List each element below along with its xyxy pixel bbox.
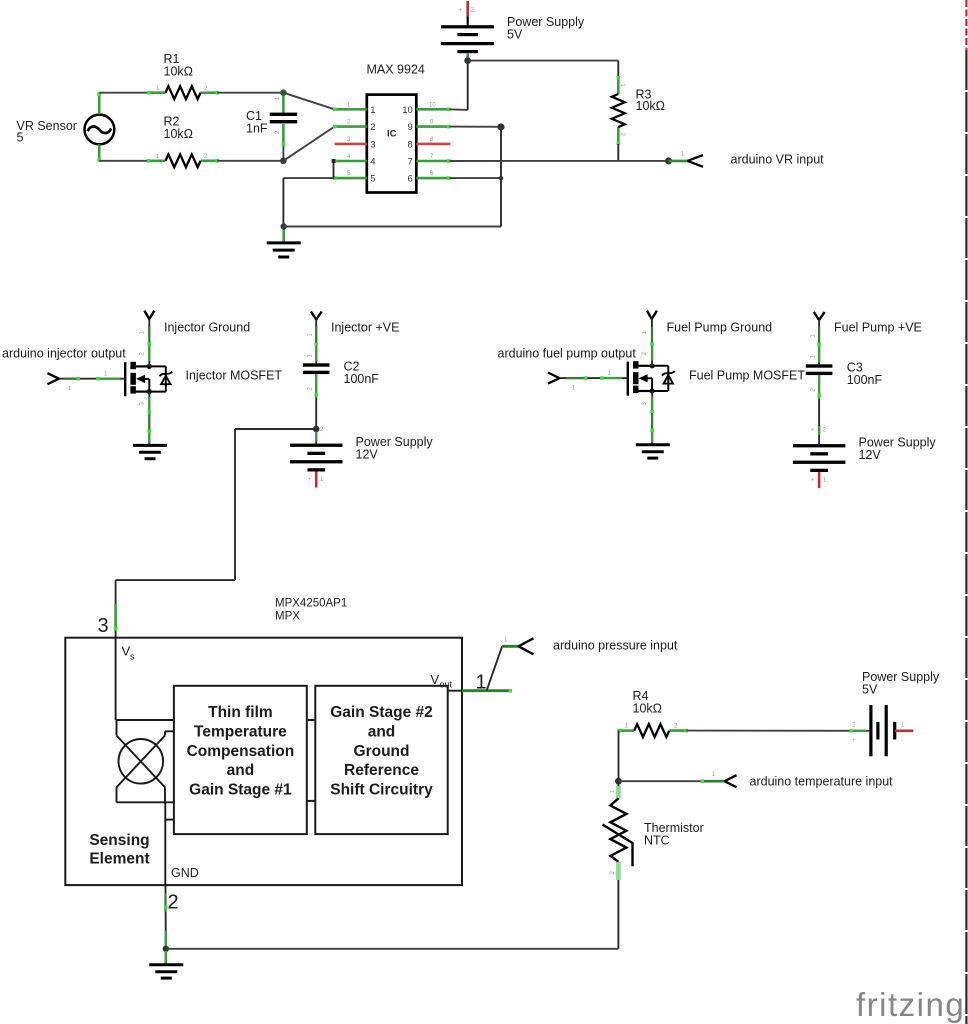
- wire pin1 to pressure antenna (diagonal): [487, 646, 503, 690]
- R4 value label: [633, 689, 663, 716]
- IC pin 3 (no connect, red): [335, 137, 376, 151]
- wire injector output to gate: [59, 372, 124, 393]
- wire R4 down to temperature node: [618, 731, 620, 782]
- svg-text:5V: 5V: [507, 28, 523, 42]
- sensing element bridge: [117, 720, 174, 820]
- wire pin 7 to arduino VR node: [450, 160, 669, 162]
- transistor Q2 fuel pump MOSFET: [628, 361, 675, 396]
- arduino temperature input antenna: [725, 775, 737, 787]
- wire ground node to right vertical: [284, 226, 501, 228]
- IC pin 6: [408, 171, 451, 185]
- wire right vertical (pin9 node to ground wire): [500, 127, 502, 227]
- svg-text:3: 3: [370, 139, 375, 150]
- capacitor C1: [270, 93, 298, 161]
- svg-text:arduino VR input: arduino VR input: [731, 153, 825, 167]
- connector box1-box2 lower: [307, 800, 316, 802]
- 5V rail junction dot: [464, 57, 471, 64]
- svg-text:Fuel Pump +VE: Fuel Pump +VE: [834, 321, 922, 335]
- fuel pump ground antenna: [647, 311, 657, 320]
- svg-text:Sensing: Sensing: [89, 832, 149, 849]
- wire fuel drain up to antenna: [642, 319, 654, 366]
- svg-text:and: and: [227, 762, 255, 779]
- arduino injector output antenna: [48, 373, 60, 384]
- IC pin 1: [333, 102, 376, 116]
- svg-text:and: and: [368, 723, 396, 740]
- power supply 12V battery (fuel pump): [793, 444, 846, 488]
- temperature node junction dot: [615, 778, 622, 785]
- svg-text:V: V: [431, 672, 440, 687]
- svg-text:+: +: [811, 478, 815, 484]
- svg-text:Gain Stage #2: Gain Stage #2: [330, 704, 433, 721]
- arduino VR input antenna: [688, 155, 704, 167]
- node A junction dot: [280, 89, 287, 96]
- svg-text:1nF: 1nF: [246, 122, 268, 136]
- C1 value label: [246, 109, 268, 136]
- wire pin5 to left vertical: [283, 177, 334, 179]
- sensing element label: [89, 832, 149, 867]
- svg-text:10kΩ: 10kΩ: [164, 65, 194, 79]
- svg-text:MPX4250AP1: MPX4250AP1: [275, 598, 347, 610]
- GND internal wire: [164, 802, 166, 885]
- MPX sensor U2 body: [65, 638, 462, 885]
- svg-text:7: 7: [408, 157, 413, 168]
- ground node junction dot: [281, 223, 287, 229]
- wire VR top to R1: [99, 92, 148, 94]
- wire node A to IC pin 1 (diagonal): [283, 93, 334, 110]
- svg-text:Ground: Ground: [354, 743, 410, 760]
- svg-text:Thin film: Thin film: [208, 704, 273, 721]
- svg-text:Injector +VE: Injector +VE: [331, 321, 399, 335]
- injector supply junction dot: [313, 426, 320, 433]
- R3 value label: [636, 88, 666, 114]
- R2 value label: [164, 115, 194, 142]
- wire fuel source down to ground: [642, 391, 654, 444]
- MPX pin 1 lead: [462, 689, 512, 693]
- svg-text:10kΩ: 10kΩ: [164, 127, 194, 141]
- node B junction dot: [280, 158, 287, 165]
- IC pin 10: [402, 102, 450, 116]
- arduino VR node junction dot: [665, 157, 672, 164]
- svg-text:+: +: [811, 428, 815, 434]
- wire left vertical down to ground node: [282, 178, 284, 226]
- ground bus wire to thermistor: [166, 948, 619, 950]
- arduino VR input pin wire: [669, 152, 688, 161]
- svg-text:100nF: 100nF: [847, 373, 883, 387]
- power supply 12V battery (injector): [290, 427, 343, 488]
- arduino pressure input antenna: [519, 638, 534, 654]
- svg-text:NTC: NTC: [644, 834, 670, 848]
- svg-text:Shift Circuitry: Shift Circuitry: [330, 782, 433, 799]
- inner box 1 (Thin film): [174, 686, 307, 834]
- connector box1-box2 upper: [307, 719, 316, 721]
- svg-text:GND: GND: [171, 866, 199, 880]
- svg-text:9: 9: [408, 122, 413, 133]
- arduino fuel pump output antenna: [548, 373, 560, 384]
- ground symbol (IC area): [267, 230, 301, 258]
- R1 value label: [164, 52, 194, 79]
- VR sensor label: [17, 119, 77, 145]
- wire pin4 elbow to pin5 line: [332, 159, 336, 178]
- IC pin 4: [333, 154, 376, 168]
- ground symbol (fuel pump MOSFET): [636, 445, 670, 458]
- injector +VE antenna: [311, 312, 322, 320]
- svg-text:2: 2: [168, 892, 179, 914]
- power supply 5V label: [507, 15, 585, 42]
- svg-text:12V: 12V: [859, 448, 882, 462]
- svg-text:Injector MOSFET: Injector MOSFET: [186, 369, 283, 383]
- wire injector drain up to antenna: [140, 319, 152, 366]
- svg-text:+: +: [459, 8, 463, 14]
- resistor R4: [618, 724, 688, 737]
- inner box 2 (Gain Stage #2): [315, 686, 447, 834]
- wire pin 10 to 5V rail: [450, 61, 468, 110]
- wire node to temperature antenna: [618, 772, 724, 783]
- IC pin 7: [408, 154, 451, 168]
- svg-text:4: 4: [370, 157, 375, 168]
- IC pin 8 (no connect, red): [408, 137, 451, 151]
- transistor Q1 injector MOSFET: [125, 362, 172, 397]
- svg-text:+: +: [308, 477, 312, 483]
- MPX ground junction dot: [163, 946, 169, 952]
- svg-text:10: 10: [402, 105, 413, 116]
- svg-text:Element: Element: [89, 850, 149, 867]
- IC pin 2: [333, 120, 376, 134]
- svg-text:arduino pressure input: arduino pressure input: [553, 639, 678, 653]
- svg-text:arduino injector output: arduino injector output: [2, 347, 126, 361]
- svg-text:10kΩ: 10kΩ: [636, 99, 666, 113]
- svg-text:s: s: [130, 652, 135, 662]
- MPX4250AP1 part label: [275, 598, 347, 623]
- wire VR bottom to R2: [99, 160, 148, 162]
- svg-text:12V: 12V: [356, 448, 379, 462]
- right edge partial element (red): [965, 0, 967, 50]
- thermistor NTC: [603, 781, 633, 949]
- MPX pin 2 wire down: [164, 885, 168, 949]
- svg-text:arduino fuel pump output: arduino fuel pump output: [498, 347, 637, 361]
- thermistor label: [644, 821, 704, 848]
- Vs pin label: [122, 644, 136, 662]
- wire injector source down to ground: [140, 392, 152, 445]
- svg-text:IC: IC: [387, 129, 397, 140]
- svg-text:MAX 9924: MAX 9924: [367, 63, 425, 77]
- fuel pump +VE antenna: [814, 312, 825, 320]
- wire junction to MPX (left then down): [114, 429, 316, 638]
- resistor R1: [147, 86, 219, 99]
- svg-text:Compensation: Compensation: [187, 743, 295, 760]
- power supply 12V label (fuel pump): [859, 436, 937, 463]
- svg-text:arduino temperature input: arduino temperature input: [750, 775, 894, 789]
- pin 9 node junction dot: [497, 123, 504, 130]
- power supply 5V label (right): [862, 670, 940, 697]
- wire R4 to 5V battery: [686, 729, 869, 733]
- svg-text:+: +: [852, 738, 856, 744]
- wire pin 9 to node: [450, 126, 502, 128]
- VR sensor AC source: [85, 115, 115, 145]
- svg-text:5V: 5V: [862, 683, 878, 697]
- wire 5V rail to R3: [468, 61, 619, 78]
- IC U1 body: [367, 95, 417, 193]
- pressure antenna lead: [502, 638, 518, 647]
- power supply 5V battery (top): [441, 1, 494, 59]
- svg-text:Reference: Reference: [344, 762, 419, 779]
- wire fuel pump output to gate: [560, 371, 627, 392]
- capacitor C2: [303, 320, 330, 430]
- svg-text:5: 5: [17, 131, 24, 145]
- wire R1 to node A: [217, 92, 283, 94]
- svg-text:Temperature: Temperature: [194, 723, 287, 740]
- ground symbol (MPX): [149, 951, 183, 978]
- svg-text:100nF: 100nF: [344, 372, 380, 386]
- svg-text:10kΩ: 10kΩ: [633, 702, 663, 716]
- svg-text:10: 10: [429, 102, 436, 108]
- power supply 5V battery (right, rotated): [852, 705, 913, 756]
- svg-text:1: 1: [370, 105, 375, 116]
- svg-text:fritzing: fritzing: [856, 986, 965, 1023]
- VR sensor pin stubs: [97, 92, 101, 162]
- svg-text:Fuel Pump MOSFET: Fuel Pump MOSFET: [689, 369, 805, 383]
- svg-text:-: -: [901, 738, 903, 744]
- Vout pin label: [431, 672, 453, 690]
- svg-text:6: 6: [408, 174, 413, 185]
- wire node B to IC pin 2 (diagonal): [283, 127, 334, 161]
- IC pin 9: [408, 120, 451, 134]
- svg-text:Gain Stage #1: Gain Stage #1: [189, 782, 292, 799]
- svg-text:5: 5: [370, 174, 375, 185]
- svg-text:MPX: MPX: [275, 611, 300, 623]
- ground symbol (injector MOSFET): [133, 445, 167, 458]
- capacitor C3: [806, 320, 833, 444]
- C3 value label: [847, 361, 883, 388]
- wire R2 to node B: [217, 160, 283, 162]
- svg-text:8: 8: [408, 139, 413, 150]
- svg-text:out: out: [440, 680, 453, 690]
- svg-text:VR Sensor: VR Sensor: [17, 119, 77, 133]
- svg-text:3: 3: [98, 615, 109, 637]
- power supply 12V label (injector): [356, 435, 434, 462]
- right edge partial element (dark): [965, 50, 967, 1024]
- Vs internal wire: [116, 638, 174, 720]
- svg-text:Injector Ground: Injector Ground: [164, 321, 250, 335]
- IC pin 5: [333, 171, 376, 185]
- svg-text:Fuel Pump Ground: Fuel Pump Ground: [667, 321, 773, 335]
- resistor R3 (vertical): [612, 76, 625, 161]
- svg-text:2: 2: [370, 122, 375, 133]
- C2 value label: [344, 360, 380, 387]
- injector ground antenna: [144, 311, 154, 320]
- Vout wire to MPX edge: [448, 690, 462, 692]
- resistor R2: [147, 154, 219, 167]
- wire pin 6 to vertical: [450, 176, 504, 180]
